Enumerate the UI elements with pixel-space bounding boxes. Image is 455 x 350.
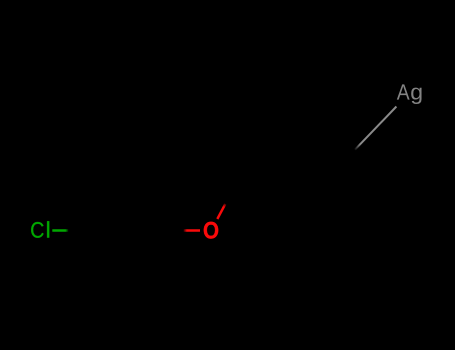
- bond O-CH2 (red half): [217, 204, 225, 219]
- bond C-O (red half): [184, 229, 200, 231]
- atom Ag: [397, 84, 422, 104]
- bond Cl-C (green half): [52, 229, 68, 231]
- atom Cl: [31, 221, 49, 238]
- atom O: [204, 222, 218, 239]
- bond C-Ag (gray half): [355, 107, 397, 150]
